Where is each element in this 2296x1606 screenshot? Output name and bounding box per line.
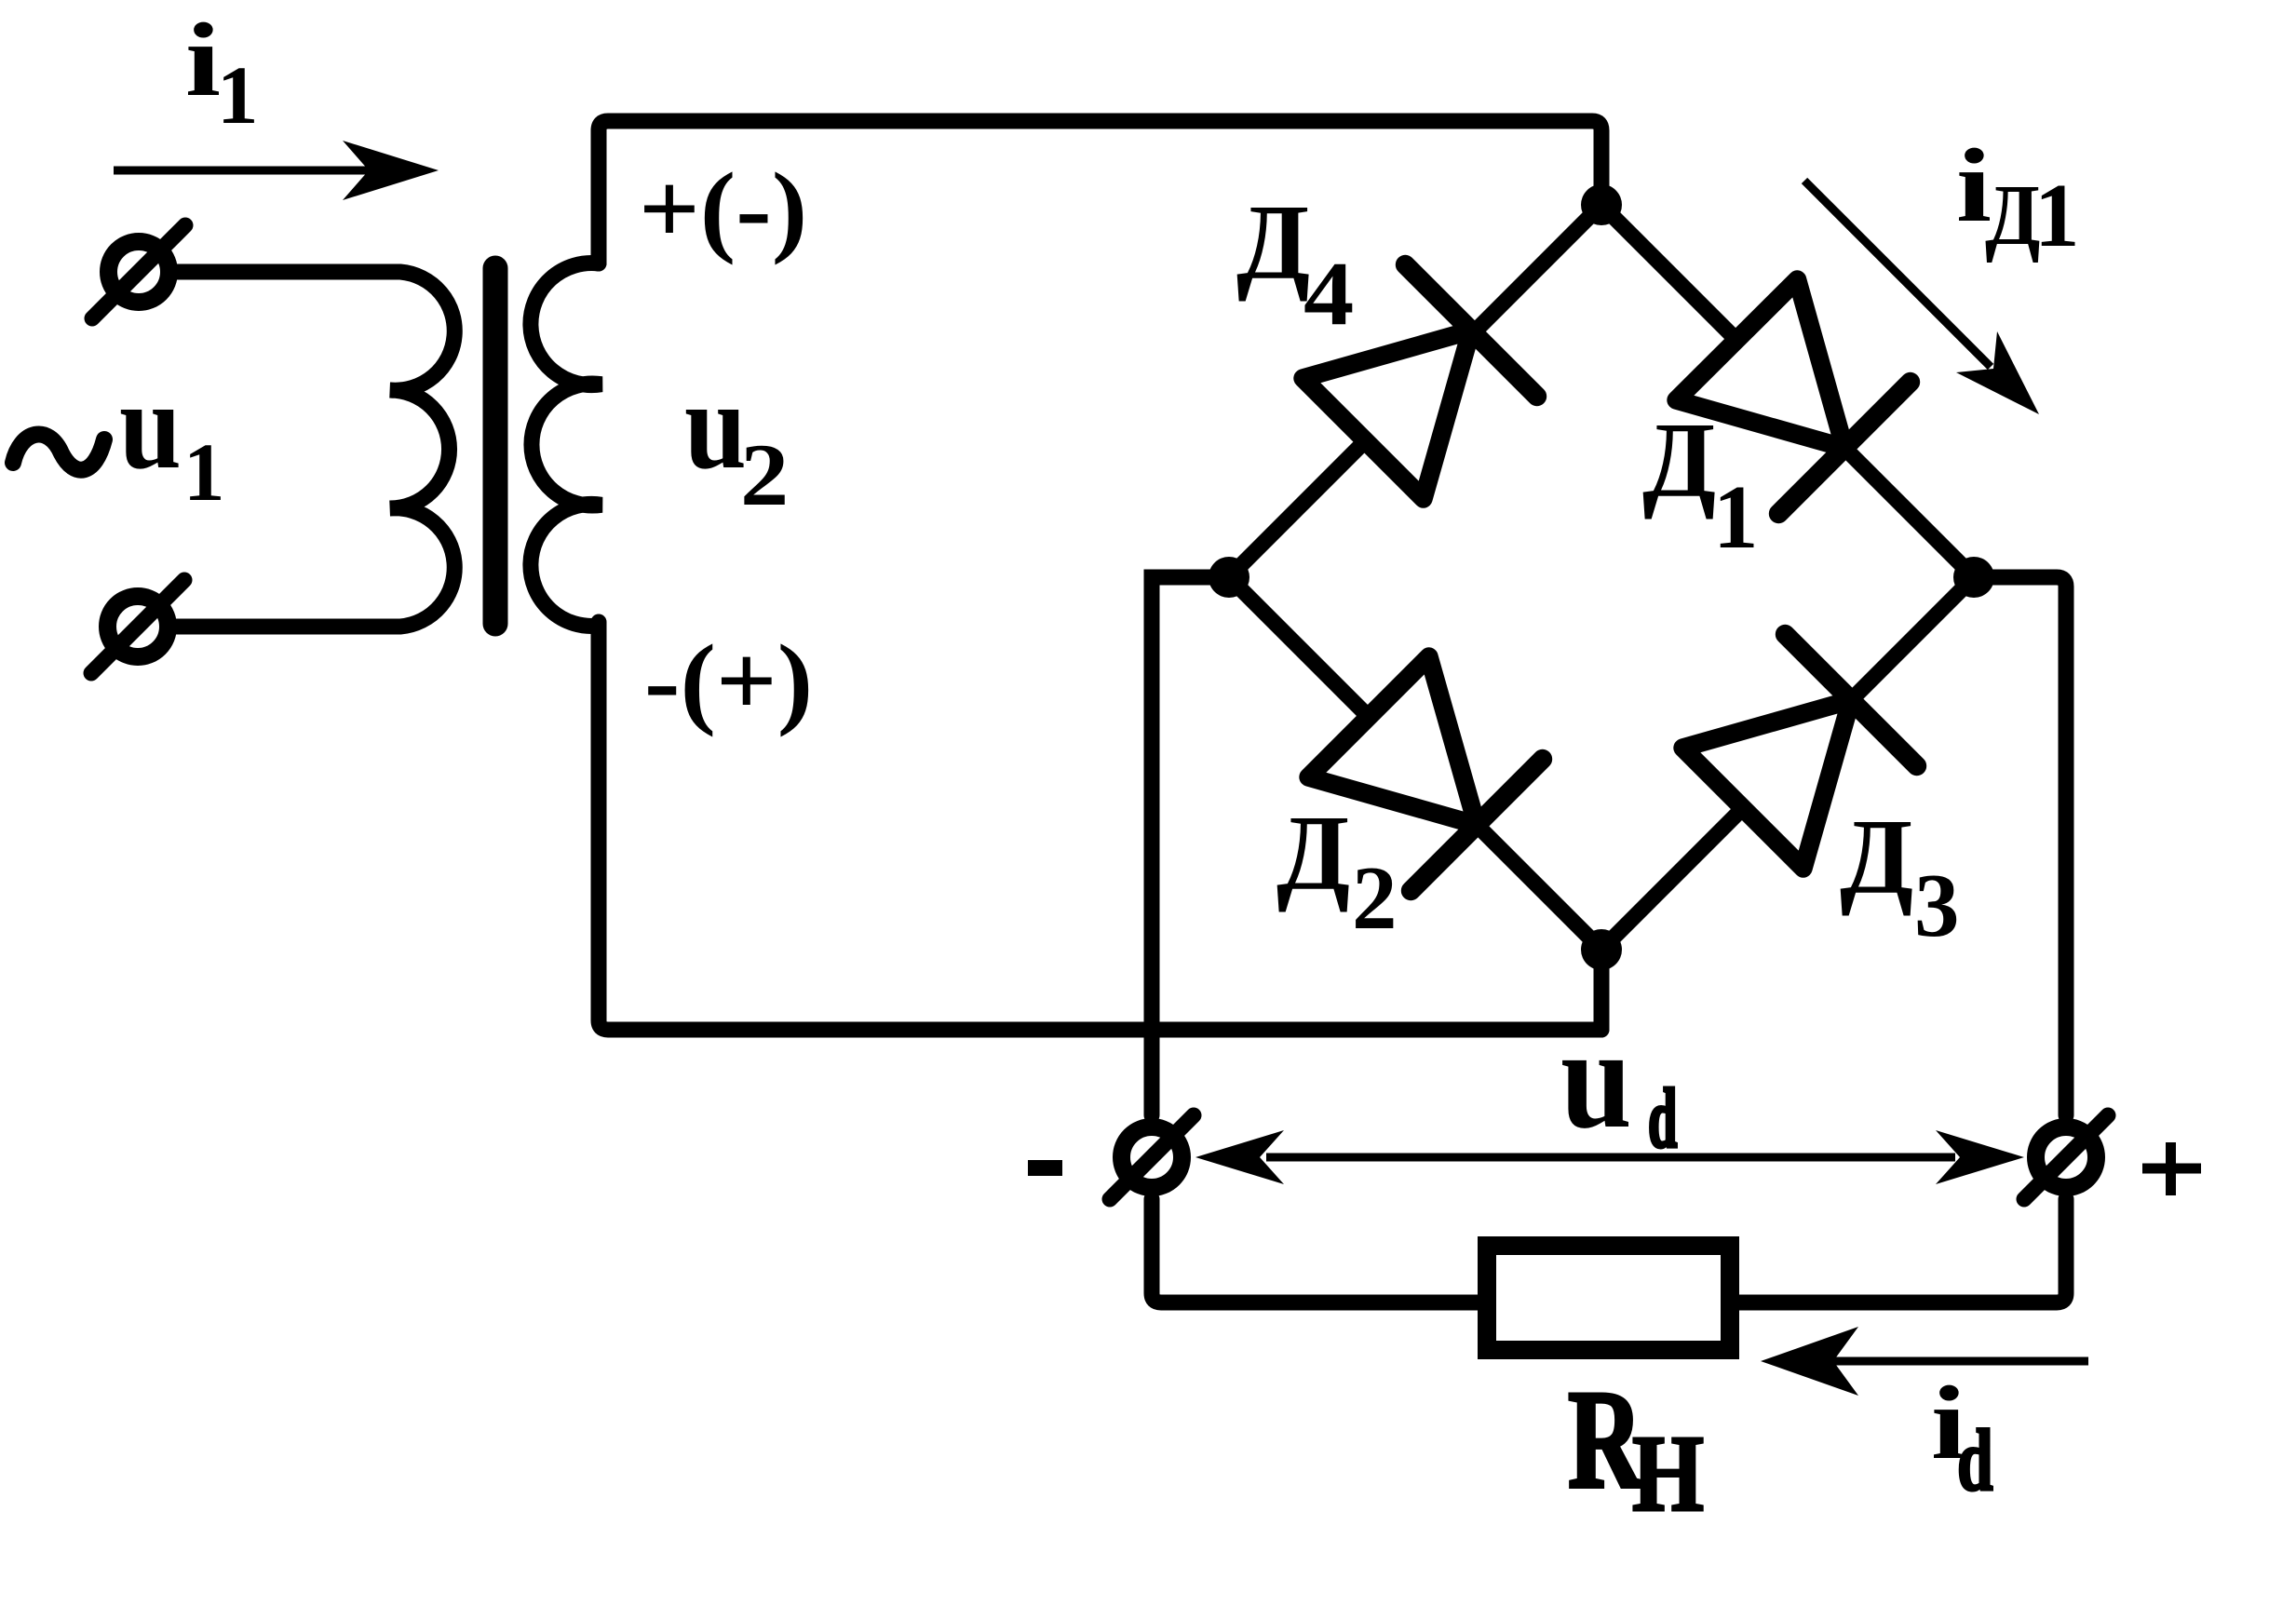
resistor RH <box>1487 1246 1730 1350</box>
ud double arrow <box>1195 1130 2024 1184</box>
wire primary top + primary winding W1 + wire primary bottom <box>177 272 454 627</box>
label RH <box>1568 1360 1644 1518</box>
diode D4 (triangle + cathode bar) <box>1303 264 1536 498</box>
label minus (output) <box>1028 1160 1062 1176</box>
wire bridge T-R <box>1601 205 1974 577</box>
svg-text:-(+): -(+) <box>644 625 813 737</box>
node B <box>1581 929 1622 970</box>
svg-text:u: u <box>1560 998 1632 1158</box>
wire B to bottom rail <box>1594 950 1610 1030</box>
svg-text:Д: Д <box>1985 168 2041 263</box>
label u2 <box>684 356 747 495</box>
wire bridge T-L <box>1229 205 1601 577</box>
svg-text:4: 4 <box>1303 244 1354 344</box>
svg-text:1: 1 <box>183 427 225 519</box>
terminal (input bottom) <box>91 580 184 673</box>
svg-text:i: i <box>185 2 221 118</box>
svg-text:Д: Д <box>1642 401 1716 520</box>
terminal (input top) <box>92 225 185 318</box>
svg-text:Д: Д <box>1840 798 1913 916</box>
terminal (output minus) <box>1110 1115 1194 1199</box>
label +(-) <box>639 153 807 265</box>
label ~u1 (source voltage) <box>13 434 104 469</box>
svg-text:2: 2 <box>740 425 789 524</box>
label ud <box>1560 998 1632 1158</box>
label D1 <box>1642 401 1716 520</box>
svg-text:1: 1 <box>217 50 259 142</box>
wire secondary bottom rail <box>599 622 1601 1030</box>
svg-text:+(-): +(-) <box>639 153 807 265</box>
diode D3 <box>1682 634 1916 868</box>
svg-text:1: 1 <box>1713 467 1759 567</box>
wire secondary top to bridge <box>599 121 1601 263</box>
svg-text:Д: Д <box>1276 794 1350 912</box>
wire bridge B-R <box>1601 577 1974 950</box>
svg-text:2: 2 <box>1352 848 1398 948</box>
svg-text:1: 1 <box>2034 166 2080 265</box>
svg-text:u: u <box>119 356 182 495</box>
wire load to plus terminal <box>1739 1199 2066 1302</box>
label D4 <box>1236 183 1310 302</box>
id arrow <box>1761 1327 2088 1396</box>
svg-text:Д: Д <box>1236 183 1310 302</box>
wire L to minus terminal <box>1152 577 1229 1115</box>
node T (junction dot) <box>1581 184 1622 225</box>
svg-text:3: 3 <box>1914 856 1960 955</box>
label iD1 (diode D1 current) <box>1956 128 1992 244</box>
label -(+) <box>644 625 813 737</box>
arrow iD1 <box>1804 181 2039 414</box>
arrow i1 <box>114 141 439 200</box>
svg-text:d: d <box>1957 1411 1993 1509</box>
svg-text:H: H <box>1632 1412 1704 1534</box>
wire bridge L-B <box>1229 577 1601 950</box>
wire R to plus terminal <box>1974 577 2066 1115</box>
label D3 <box>1840 798 1913 916</box>
label i1 (primary current) <box>185 2 221 118</box>
transformer core <box>483 268 508 624</box>
node L <box>1209 557 1249 598</box>
wire minus terminal to load <box>1152 1199 1478 1302</box>
svg-text:u: u <box>684 356 747 495</box>
node R <box>1953 557 1994 598</box>
label id <box>1931 1365 1966 1481</box>
label D2 <box>1276 794 1350 912</box>
diode D1 <box>1676 279 1910 513</box>
diode D2 <box>1308 656 1542 890</box>
svg-text:d: d <box>1648 1073 1677 1167</box>
terminal (output plus) <box>2024 1115 2108 1199</box>
label plus (output) <box>2142 1142 2201 1195</box>
secondary winding W2 <box>531 263 601 627</box>
